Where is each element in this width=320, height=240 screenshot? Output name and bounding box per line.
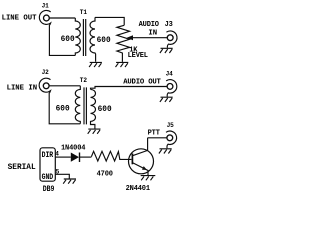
- svg-text:DB9: DB9: [43, 185, 55, 193]
- wire T1 secondary top to level pot: [95, 17, 124, 25]
- svg-text:600: 600: [97, 37, 111, 45]
- connector J2 sleeve arc and sleeve wire to T2 primary bottom: [39, 78, 80, 124]
- svg-text:600: 600: [61, 36, 75, 44]
- wire wiper to J3: [133, 37, 167, 39]
- wire collector to J5: [148, 137, 167, 139]
- svg-text:J2: J2: [42, 69, 50, 76]
- transformer T1 secondary winding 600: [90, 17, 96, 61]
- transformer T2 secondary winding 600: [91, 89, 96, 128]
- svg-text:T2: T2: [80, 77, 88, 84]
- svg-text:J4: J4: [166, 71, 174, 78]
- connector J4 sleeve arc with tail: [166, 80, 177, 97]
- svg-text:GND: GND: [42, 174, 54, 183]
- wire DIR pin 4 to diode: [55, 156, 71, 158]
- svg-text:LEVEL: LEVEL: [128, 52, 148, 60]
- svg-text:600: 600: [98, 106, 112, 114]
- transformer T2 core: [84, 87, 86, 124]
- transistor Q1 circle: [129, 149, 154, 174]
- connector J4 tip circle: [167, 84, 173, 90]
- svg-text:IN: IN: [148, 29, 157, 37]
- connector J3 sleeve arc with tail: [166, 31, 177, 48]
- ground T2 secondary: [88, 129, 101, 134]
- wire GND pin 5 to ground: [55, 174, 69, 178]
- ground pot bottom: [116, 62, 129, 67]
- svg-text:LINE IN: LINE IN: [7, 85, 38, 93]
- connector J2 tip circle: [43, 83, 49, 89]
- transformer T2 primary winding 600: [75, 86, 80, 124]
- svg-text:T1: T1: [80, 9, 88, 16]
- connector DB9 box: [40, 148, 55, 181]
- svg-text:2N4401: 2N4401: [126, 185, 150, 193]
- connector J1 sleeve arc and sleeve wire to T1 primary bottom: [39, 10, 75, 55]
- diode D1 cathode bar: [79, 153, 81, 163]
- potentiometer R1 1K LEVEL zigzag: [117, 25, 130, 62]
- svg-text:DIR: DIR: [42, 152, 54, 161]
- ground DB9 GND: [63, 179, 76, 184]
- svg-text:LINE OUT: LINE OUT: [2, 15, 38, 23]
- svg-text:AUDIO OUT: AUDIO OUT: [123, 79, 161, 87]
- transformer T1 core: [83, 19, 85, 56]
- ground T1 secondary: [89, 62, 102, 67]
- transistor Q1 collector: [133, 138, 148, 156]
- potentiometer wiper arrow: [127, 35, 133, 40]
- ground J4 sleeve: [160, 97, 173, 102]
- svg-text:1N4004: 1N4004: [61, 144, 85, 152]
- svg-text:SERIAL: SERIAL: [8, 164, 36, 172]
- svg-text:600: 600: [56, 106, 70, 114]
- svg-text:J1: J1: [42, 3, 50, 10]
- svg-text:PTT: PTT: [148, 130, 160, 138]
- transistor Q1 emitter: [133, 163, 148, 175]
- transistor Q1 emitter arrow: [142, 166, 147, 170]
- transformer T1 primary winding 600: [75, 18, 80, 55]
- connector J3 tip circle: [167, 35, 173, 41]
- wire J2 tip to T2 primary top: [49, 85, 80, 87]
- ground J5 sleeve: [159, 149, 172, 154]
- diode D1 1N4004 triangle: [71, 153, 79, 162]
- wire J1 tip to T1 primary top: [49, 17, 75, 19]
- ground emitter: [141, 176, 156, 181]
- svg-text:AUDIO: AUDIO: [139, 21, 159, 29]
- resistor R2 4700 zigzag: [91, 151, 131, 161]
- ground J3 sleeve: [160, 48, 173, 53]
- connector J5 tip circle: [167, 135, 173, 141]
- wire diode to resistor: [80, 156, 92, 158]
- svg-text:J5: J5: [167, 122, 175, 129]
- connector J5 sleeve arc with tail: [166, 131, 177, 148]
- svg-text:4700: 4700: [97, 170, 113, 178]
- svg-text:J3: J3: [165, 21, 173, 29]
- connector J1 tip circle: [44, 15, 50, 21]
- wire T2 secondary top to J4: [91, 87, 168, 90]
- transistor Q1 base bar: [131, 154, 133, 165]
